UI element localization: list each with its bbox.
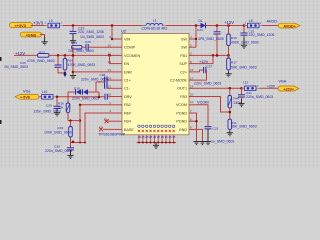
junction D10 riser <box>98 96 101 99</box>
svg-text:C24: C24 <box>197 28 203 32</box>
wire: bead to VGH port <box>260 87 282 89</box>
svg-text:+20V»: +20V» <box>284 87 295 91</box>
wire: DRV line <box>57 96 105 98</box>
svg-text:C23: C23 <box>85 40 91 44</box>
diode D1 <box>199 19 209 29</box>
svg-text:VGL: VGL <box>23 89 32 94</box>
svg-text:C29: C29 <box>46 104 52 108</box>
wire: ENR to R15 leg <box>73 71 112 73</box>
svg-text:16: 16 <box>190 68 194 72</box>
wire: R23 to pin 11 <box>49 54 112 56</box>
resistor R17 (vertical) <box>227 55 257 71</box>
svg-text:1N_SMD_0603: 1N_SMD_0603 <box>80 35 104 39</box>
svg-text:DRV: DRV <box>124 95 132 99</box>
U2 left pin stubs <box>103 39 122 129</box>
svg-text:R17: R17 <box>231 60 237 64</box>
no-ERC X at BASE <box>99 127 103 131</box>
power port dot <box>64 72 66 74</box>
svg-text:AVDD: AVDD <box>267 18 278 23</box>
ground below C22 <box>70 34 76 44</box>
capacitor C24 <box>197 26 224 56</box>
wire: bottom ground rail <box>71 142 86 144</box>
junction SUP riser <box>212 54 215 57</box>
ground below C33 <box>205 142 211 145</box>
capacitor C22 <box>70 26 104 35</box>
svg-text:GND: GND <box>179 128 188 132</box>
svg-text:22U_SMD_1206: 22U_SMD_1206 <box>78 30 104 34</box>
wire: EN pin jog <box>110 55 113 63</box>
wire: VCOM to C33 <box>196 105 208 127</box>
capacitor C28 (flying C1) <box>81 73 112 92</box>
junction R16 <box>227 24 230 27</box>
svg-text:L9: L9 <box>49 19 53 23</box>
svg-text:COMP: COMP <box>124 46 136 50</box>
junction node B <box>111 24 114 27</box>
svg-text:L8: L8 <box>249 19 253 23</box>
resistor R23 <box>27 50 55 62</box>
svg-text:R16: R16 <box>231 36 237 40</box>
svg-text:R23: R23 <box>39 50 45 54</box>
junction C24 bottom <box>216 54 219 57</box>
svg-text:C2-MODE: C2-MODE <box>170 79 188 83</box>
junction PGND <box>195 120 197 122</box>
svg-text:10K_SMD_0603: 10K_SMD_0603 <box>68 49 94 53</box>
svg-text:+12V: +12V <box>224 20 234 25</box>
port +3V3 <box>9 23 32 29</box>
svg-text:TPS61080PWP: TPS61080PWP <box>98 131 126 136</box>
ferrite bead L8 <box>244 19 263 28</box>
ground at GND port <box>42 36 48 45</box>
svg-text:22U_SMD_1206: 22U_SMD_1206 <box>249 33 275 37</box>
svg-text:L10: L10 <box>42 90 48 94</box>
wire: GND pin to ground <box>196 129 203 141</box>
no-ERC X at FB4 <box>105 119 109 123</box>
sheet edge mark 1 <box>0 57 2 61</box>
wire: R18 bottom tie <box>68 120 80 122</box>
capacitor C27 (flying C2) <box>194 65 221 86</box>
wire: D1 to bead L8 <box>208 25 247 27</box>
svg-text:VGH: VGH <box>279 80 287 84</box>
capacitor C32 (series, DRV) <box>72 94 107 101</box>
svg-text:SW: SW <box>181 46 187 50</box>
junction C31 <box>240 87 243 90</box>
wire: R15 left leg <box>72 47 74 74</box>
capacitor C30 <box>45 143 74 154</box>
svg-text:U2: U2 <box>121 29 127 34</box>
port VGL <box>15 94 39 99</box>
svg-text:100K_SMD_0603: 100K_SMD_0603 <box>44 130 72 134</box>
ground below R17 <box>225 72 231 77</box>
resistor R24 (vertical) <box>63 55 95 73</box>
wire: REF to ground rail <box>85 113 112 143</box>
svg-text:REF: REF <box>124 111 132 115</box>
svg-text:R15: R15 <box>72 41 78 45</box>
svg-text:CDRH2D18 4R2: CDRH2D18 4R2 <box>142 26 168 30</box>
ground below rail <box>153 143 159 149</box>
junction R15 leg <box>72 54 75 57</box>
U2 bottom thermal-pad pin bubbles <box>138 125 175 128</box>
capacitor C25 <box>241 26 275 38</box>
capacitor C31 <box>238 88 273 99</box>
junction ENR tee <box>72 71 75 74</box>
U2 right pin stubs <box>189 39 196 129</box>
capacitor C26 <box>4 55 62 73</box>
svg-text:FB3: FB3 <box>180 95 187 99</box>
svg-text:FB4: FB4 <box>124 120 131 124</box>
wire: DRV line right part <box>107 96 112 98</box>
junction SW drop <box>195 24 198 27</box>
svg-text:«GND: «GND <box>26 33 37 38</box>
wire: C26/R24 bottom tie <box>58 72 65 74</box>
junction node A <box>72 24 75 27</box>
svg-text:«+3V3: «+3V3 <box>15 23 27 28</box>
wire: FB1 node line <box>196 54 229 56</box>
wire GND port to ground <box>40 35 45 37</box>
junction C25 <box>243 24 246 27</box>
svg-text:C27: C27 <box>207 65 213 69</box>
U2 left pin numbers <box>99 35 112 129</box>
svg-text:SUP: SUP <box>179 62 187 66</box>
ground below R15 leg <box>70 74 76 78</box>
ground below C30 <box>67 150 73 159</box>
wire: +12V rail to VCOMEN <box>14 54 38 56</box>
wire: bead to L1 <box>63 25 146 27</box>
svg-text:17: 17 <box>190 76 194 80</box>
diode D10 (dual) <box>68 87 99 97</box>
svg-text:ENR: ENR <box>124 70 132 74</box>
ground below C31 <box>238 99 244 107</box>
ground below R41 <box>227 131 233 136</box>
svg-text:C30: C30 <box>54 144 60 148</box>
capacitor C29 <box>34 97 61 114</box>
svg-text:VCOM: VCOM <box>176 103 187 107</box>
svg-text:C1+: C1+ <box>124 79 131 83</box>
inductor L1 <box>142 19 168 31</box>
junction R16/R17 <box>227 54 230 57</box>
svg-text:AVDD»: AVDD» <box>284 24 296 28</box>
resistor R19 (vertical) <box>44 121 72 143</box>
junction R19 top <box>69 119 71 121</box>
junction dots on ground rail <box>72 141 175 144</box>
wire: FB2 to ground rail <box>80 105 112 143</box>
svg-text:4P8_SMD_0805: 4P8_SMD_0805 <box>198 37 224 41</box>
op-amp U2 body (TPS65150PWP) <box>121 29 189 135</box>
svg-text:20: 20 <box>190 93 194 97</box>
U2 bottom pin no-ERC X marks <box>138 130 175 132</box>
svg-text:OUT1: OUT1 <box>177 87 187 91</box>
svg-text:EN: EN <box>124 62 129 66</box>
junction C29 <box>56 96 59 99</box>
svg-text:L11: L11 <box>243 81 248 85</box>
svg-text:VCOM: VCOM <box>197 99 209 104</box>
svg-text:VCOMEN: VCOMEN <box>124 54 141 58</box>
junction FB2 <box>79 104 81 106</box>
capacitor C23 (series, COMP) <box>80 35 104 51</box>
wire: L1 to D1 <box>166 25 199 27</box>
ground below C25 <box>241 37 247 48</box>
svg-text:1N_SMD_0603: 1N_SMD_0603 <box>4 65 28 69</box>
svg-text:220n_SMD_0603: 220n_SMD_0603 <box>45 149 72 153</box>
svg-text:10K: 10K <box>58 105 64 109</box>
resistor R41 (vertical) <box>228 119 257 131</box>
wire: VIN drop <box>111 26 113 40</box>
wire: PGND pins to ground <box>195 113 198 141</box>
junction R18 bottom <box>79 119 81 121</box>
junction C26 <box>57 54 60 57</box>
junction C24 <box>216 24 219 27</box>
svg-text:PGND: PGND <box>176 111 187 115</box>
port VGH <box>278 86 299 91</box>
junction R40/R41 <box>229 111 232 114</box>
svg-text:1u_SMD_0603: 1u_SMD_0603 <box>211 140 234 144</box>
sheet edge mark 2 <box>0 120 2 124</box>
svg-text:220n_SMD_0603: 220n_SMD_0603 <box>81 77 108 81</box>
junction SW pin1 <box>195 38 197 40</box>
wire: OUT1 to bead <box>196 87 242 89</box>
svg-text:PGND: PGND <box>176 120 187 124</box>
svg-text:C33: C33 <box>213 126 219 130</box>
svg-text:FB2: FB2 <box>124 103 131 107</box>
ferrite bead L10 <box>39 90 58 99</box>
svg-text:220n_SMD_0603: 220n_SMD_0603 <box>246 95 273 99</box>
svg-text:490K_SMD_0603: 490K_SMD_0603 <box>231 41 259 45</box>
wire: main top rail <box>31 25 48 27</box>
svg-text:C28: C28 <box>100 73 106 77</box>
wire: IC bottom pins rail <box>137 142 177 144</box>
ground below C29 <box>54 109 60 116</box>
wire: SUP pin riser <box>196 55 213 63</box>
port AVDD <box>278 23 300 28</box>
svg-text:VIN: VIN <box>124 37 130 41</box>
U2 bottom pin numbers <box>138 135 176 139</box>
wire: FB3 jog <box>196 97 230 113</box>
U2 right pin numbers <box>190 35 194 129</box>
wire: C23 to COMP pin <box>95 46 112 48</box>
junction EN drop <box>108 54 111 57</box>
wire: L8 to AVDD port <box>263 25 282 27</box>
svg-text:BASE: BASE <box>124 128 134 132</box>
svg-text:220n_SMD_0603: 220n_SMD_0603 <box>72 97 99 101</box>
resistor R15 <box>68 41 94 53</box>
U2 left pin names <box>124 37 141 131</box>
U2 bottom pin stubs <box>139 135 174 143</box>
svg-text:C2+: C2+ <box>180 70 187 74</box>
junction R40 <box>229 87 232 90</box>
svg-text:C1-: C1- <box>124 87 131 91</box>
port GND <box>20 32 41 37</box>
wire: SW pins vertical <box>195 26 197 48</box>
svg-text:L1: L1 <box>153 19 157 23</box>
svg-text:+12V: +12V <box>199 59 209 64</box>
svg-text:«-5V8: «-5V8 <box>20 96 30 100</box>
resistor R18 (vertical) <box>58 92 70 121</box>
U2 right pin names <box>170 37 188 131</box>
svg-text:SW: SW <box>181 37 187 41</box>
svg-text:220n_SMD_0603: 220n_SMD_0603 <box>194 82 221 86</box>
svg-text:FB1: FB1 <box>180 54 187 58</box>
svg-text:10: 10 <box>190 100 194 104</box>
svg-text:56K_SMD_0603: 56K_SMD_0603 <box>231 124 257 128</box>
ferrite bead L9 <box>44 19 63 28</box>
junction at VIN pin <box>111 38 113 40</box>
svg-text:50K_SMD_0603: 50K_SMD_0603 <box>231 65 257 69</box>
resistor R40 (vertical, NTC mark) <box>228 88 242 119</box>
ferrite bead L11 <box>242 81 260 91</box>
resistor R16 (vertical) <box>227 26 259 56</box>
svg-text:D10: D10 <box>74 87 80 91</box>
junction R24 <box>64 54 67 57</box>
ground below GND pin <box>199 142 205 145</box>
power port arrow (negative rail) <box>63 74 67 77</box>
ground below PGND <box>193 142 199 145</box>
svg-text:470K_SMD_0603: 470K_SMD_0603 <box>68 63 96 67</box>
svg-text:+3V3: +3V3 <box>33 20 44 25</box>
capacitor C33 <box>205 126 235 143</box>
svg-text:470K_SMD_0603: 470K_SMD_0603 <box>27 59 55 63</box>
svg-text:D1: D1 <box>199 19 203 23</box>
